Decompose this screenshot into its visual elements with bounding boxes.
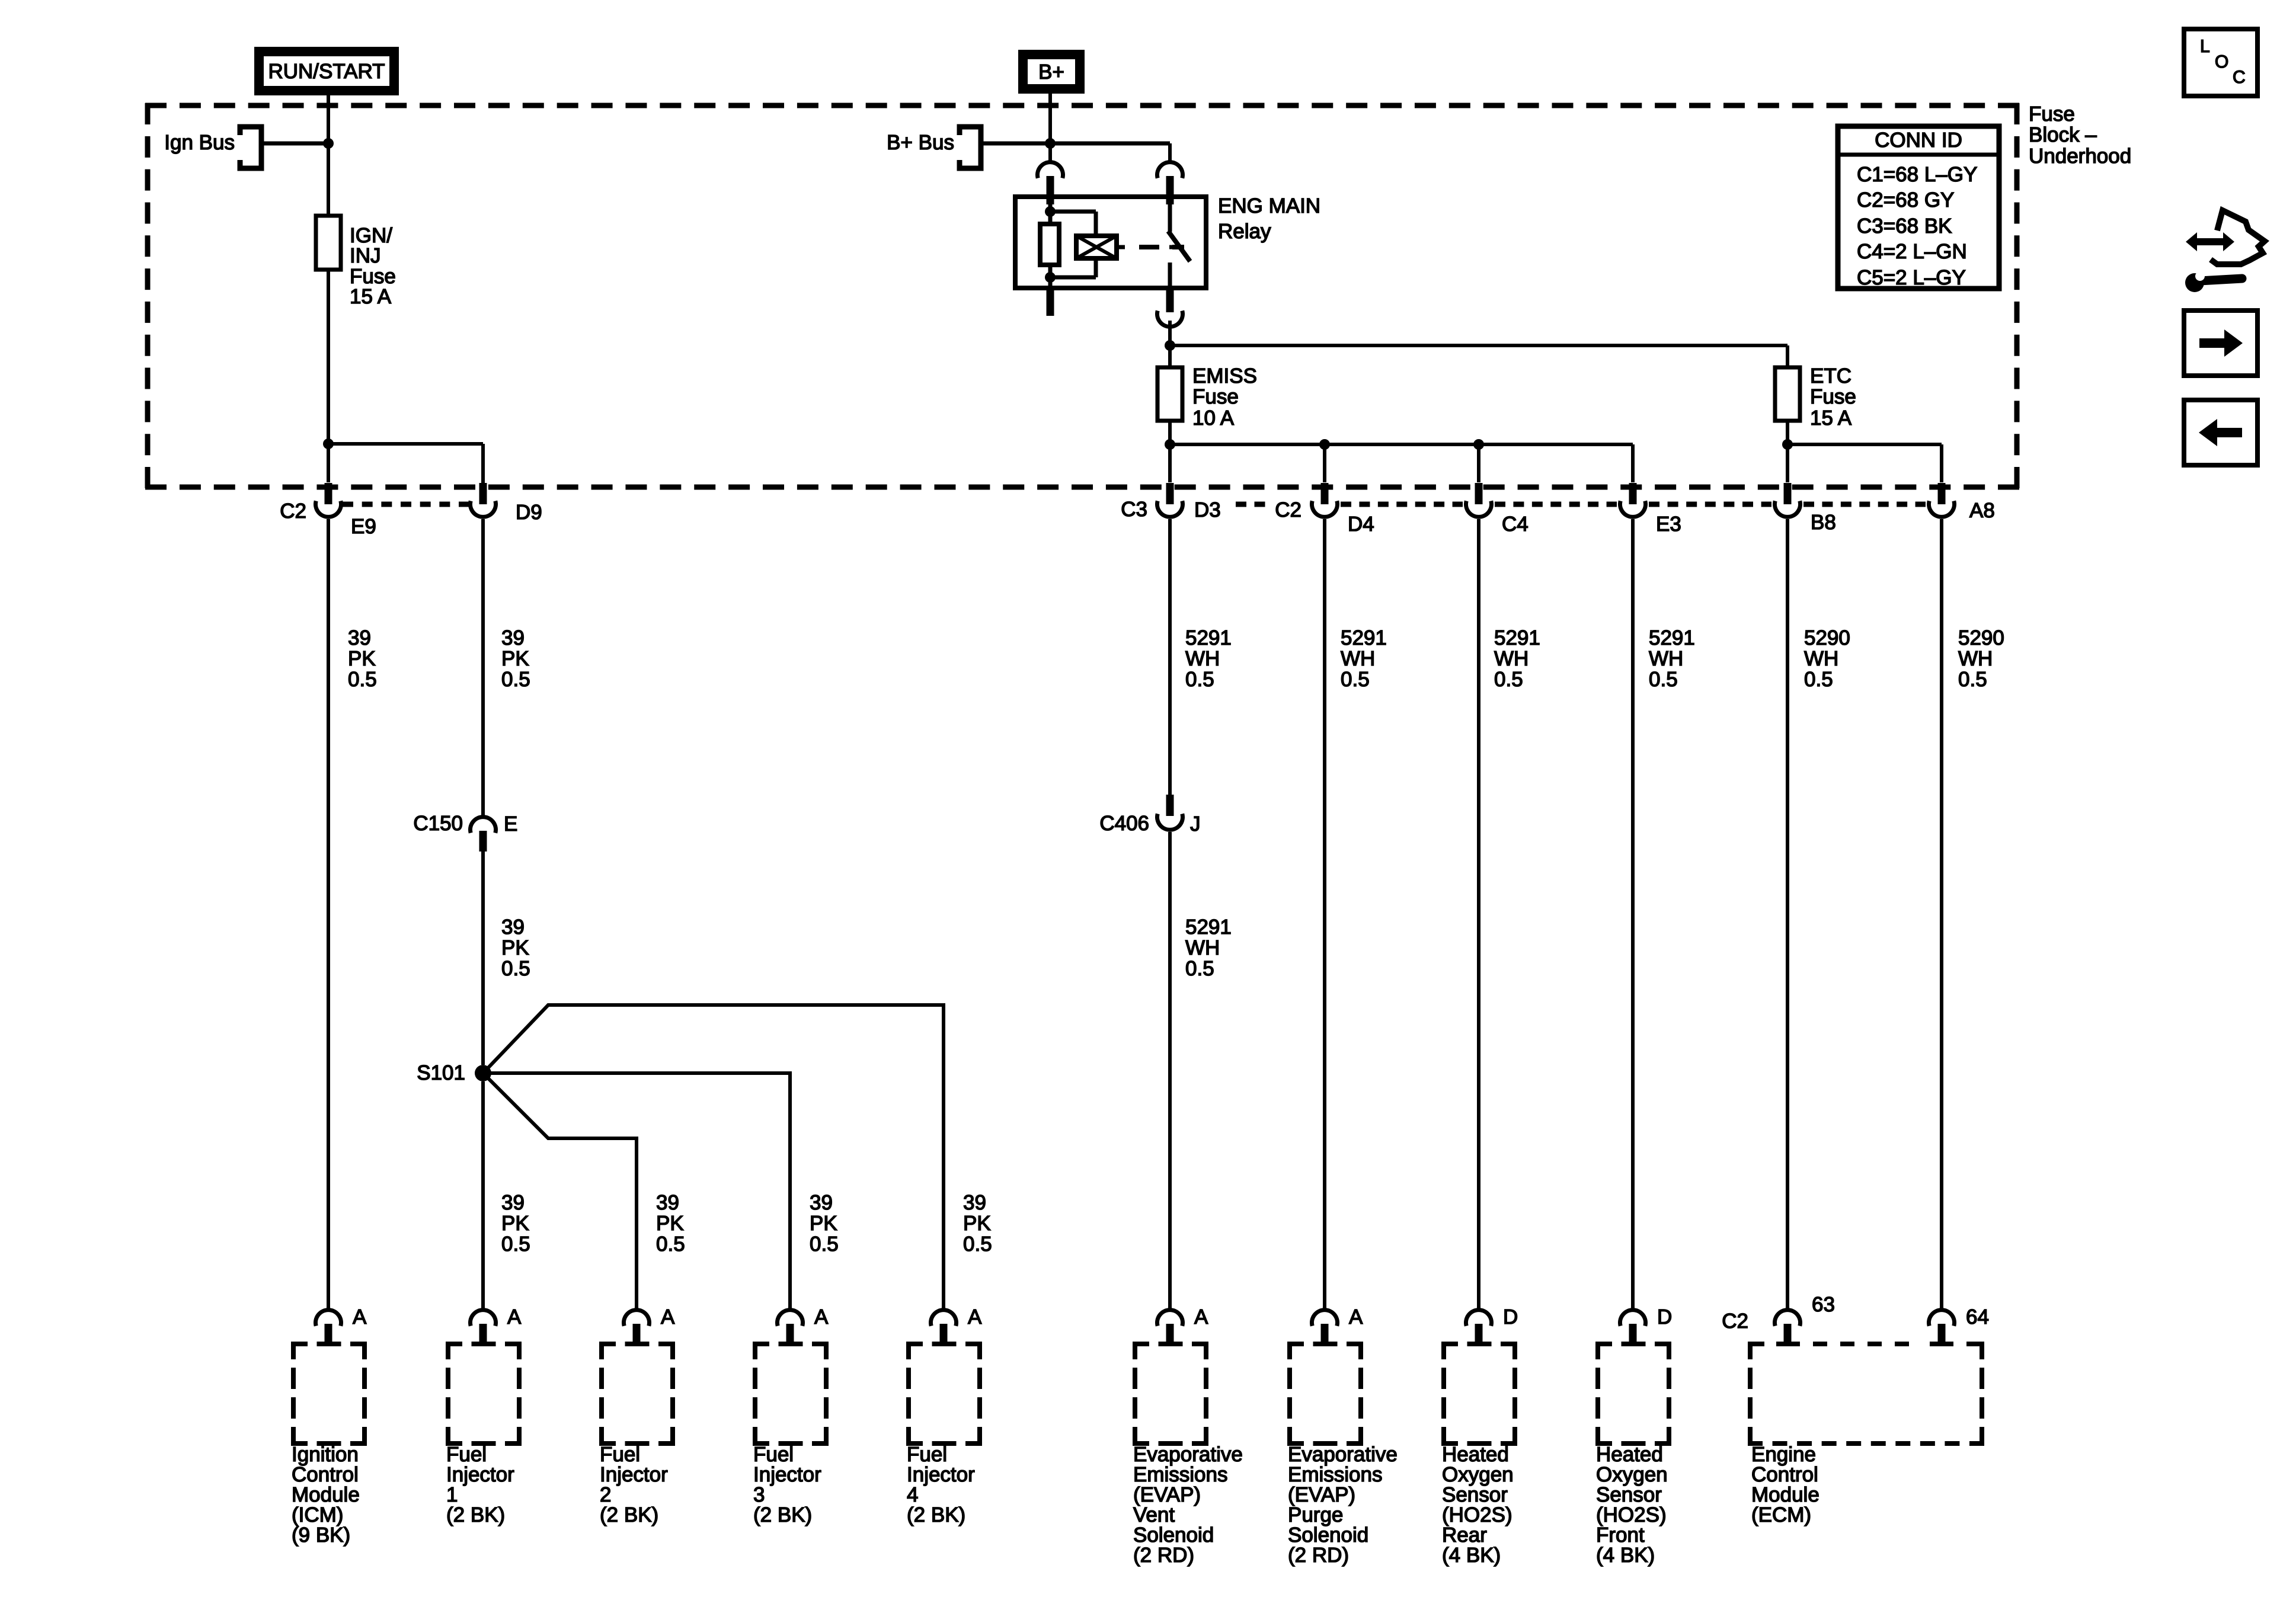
svg-text:39: 39 (501, 916, 525, 939)
svg-text:J: J (1190, 812, 1201, 836)
fuse IGN/INJ 15A (316, 216, 341, 270)
relay coil resistor (1040, 224, 1059, 265)
relay coil node top (1045, 206, 1056, 217)
svg-text:0.5: 0.5 (501, 668, 530, 691)
in-line connector C406 pin J (1166, 795, 1174, 816)
relay coil winding symbol (1050, 210, 1096, 214)
connector pin ECM pin 63 (1775, 1310, 1801, 1344)
svg-text:D: D (1657, 1305, 1672, 1329)
wire E3 to HO2S front (1631, 519, 1635, 1308)
svg-text:C150: C150 (413, 812, 463, 835)
svg-text:(2 BK): (2 BK) (753, 1503, 812, 1526)
svg-text:0.5: 0.5 (1185, 668, 1214, 691)
wire D3 to C406 (1168, 519, 1172, 796)
junction bus to D4 (1319, 439, 1330, 450)
svg-text:C5=2 L–GY: C5=2 L–GY (1857, 266, 1966, 289)
svg-text:B8: B8 (1811, 511, 1836, 534)
wire B+ Bus to relay (981, 142, 1170, 146)
svg-text:(4 BK): (4 BK) (1596, 1544, 1655, 1567)
svg-text:PK: PK (963, 1212, 991, 1235)
junction Ign Bus / RUN-START wire (323, 138, 334, 149)
connector pin A8 (1929, 483, 1955, 517)
svg-text:0.5: 0.5 (656, 1233, 685, 1256)
connector pin ICM pin A (316, 1310, 341, 1344)
component box fuel injector 3 (753, 1342, 829, 1446)
svg-text:A8: A8 (1969, 499, 1995, 522)
connector pin EVAP vent solenoid pin A (1157, 1310, 1183, 1344)
svg-text:0.5: 0.5 (1649, 668, 1678, 691)
svg-text:39: 39 (501, 626, 525, 649)
svg-text:5290: 5290 (1804, 626, 1850, 649)
wire E9 to ICM pin A (327, 519, 330, 1308)
icon LOC box (2184, 29, 2257, 96)
svg-text:0.5: 0.5 (501, 1233, 530, 1256)
relay actuator dashed link (1139, 245, 1184, 249)
svg-text:0.5: 0.5 (963, 1233, 992, 1256)
svg-text:Block –: Block – (2029, 123, 2097, 146)
wire S101 branch to injector 4 (483, 1005, 944, 1308)
component box fuel injector 2 (599, 1342, 675, 1446)
connector boundary dashed line C4-E3 (1495, 502, 1617, 507)
B+ Bus bracket (960, 127, 981, 168)
connector pin ECM pin 64 (1929, 1310, 1955, 1344)
svg-text:Fuse: Fuse (1192, 385, 1239, 408)
relay ENG MAIN (1015, 162, 1206, 327)
wire EMISS fuse to bus (1168, 421, 1172, 444)
svg-text:0.5: 0.5 (1958, 668, 1987, 691)
wire down to EMISS fuse (1168, 345, 1172, 367)
junction relay output to ETC feed (1165, 340, 1175, 351)
wire branch down to D9 (481, 444, 485, 484)
svg-text:C: C (2233, 68, 2246, 87)
svg-text:Fuse: Fuse (1810, 385, 1856, 408)
svg-text:A: A (507, 1305, 522, 1329)
wire to A8 (1940, 444, 1943, 482)
svg-text:S101: S101 (417, 1061, 465, 1084)
svg-text:ENG MAIN: ENG MAIN (1218, 194, 1320, 217)
svg-text:(9 BK): (9 BK) (292, 1523, 350, 1547)
svg-text:39: 39 (348, 626, 371, 649)
svg-text:A: A (1194, 1305, 1208, 1329)
power feed box B+ (1023, 55, 1080, 89)
icon vehicle with wrench (2185, 210, 2265, 292)
icon arrow previous page (2184, 400, 2257, 465)
svg-text:PK: PK (501, 936, 529, 959)
connector boundary dashed line D3-D4 (1236, 502, 1273, 507)
wire D4 to EVAP purge solenoid (1323, 519, 1326, 1308)
relay coil actuator stub (1117, 245, 1125, 249)
svg-text:A: A (1349, 1305, 1363, 1329)
svg-text:0.5: 0.5 (501, 957, 530, 980)
wire B+ to relay coil pin (1048, 94, 1052, 161)
svg-text:0.5: 0.5 (1494, 668, 1523, 691)
svg-text:O: O (2215, 52, 2228, 72)
CONN ID table (1838, 126, 1999, 289)
svg-text:L: L (2200, 37, 2210, 56)
svg-text:WH: WH (1958, 647, 1993, 670)
svg-text:5291: 5291 (1649, 626, 1695, 649)
relay switch output pin (1166, 288, 1174, 312)
wire RUN/START to IGN/INJ fuse (327, 95, 330, 216)
svg-text:C2=68 GY: C2=68 GY (1857, 188, 1954, 212)
svg-text:WH: WH (1804, 647, 1838, 670)
svg-text:(4 BK): (4 BK) (1442, 1544, 1501, 1567)
svg-text:E3: E3 (1656, 513, 1681, 536)
wire to C4 (1477, 444, 1480, 482)
svg-text:RUN/START: RUN/START (268, 60, 385, 83)
junction S splice to D9 branch (323, 438, 334, 449)
component box fuel injector 1 (446, 1342, 522, 1446)
svg-text:D3: D3 (1194, 498, 1221, 521)
wire down to ETC fuse (1786, 345, 1789, 367)
svg-text:39: 39 (963, 1191, 986, 1214)
wire D9 to C150 (481, 519, 485, 816)
component box HO2S rear (1441, 1342, 1517, 1446)
wire ETC fuse to bus (1786, 421, 1789, 444)
svg-text:63: 63 (1812, 1293, 1835, 1316)
connector pin D3 (1157, 483, 1182, 517)
svg-text:PK: PK (656, 1212, 684, 1235)
wire to B8 (1786, 444, 1789, 482)
svg-text:5291: 5291 (1185, 916, 1232, 939)
svg-text:0.5: 0.5 (810, 1233, 839, 1256)
svg-text:E: E (504, 812, 517, 836)
connector pin fuel injector 3 pin A (778, 1310, 803, 1344)
wire S101 to injector 1 (481, 1081, 485, 1308)
svg-text:39: 39 (501, 1191, 525, 1214)
svg-text:D: D (1503, 1305, 1518, 1329)
component box HO2S front (1595, 1342, 1671, 1446)
relay coil ground stub pin (1047, 288, 1054, 316)
connector pin E9 (316, 483, 341, 517)
svg-text:5291: 5291 (1494, 626, 1540, 649)
svg-text:WH: WH (1185, 647, 1220, 670)
svg-text:15 A: 15 A (1810, 406, 1852, 430)
svg-text:CONN ID: CONN ID (1875, 129, 1962, 152)
in-line connector C150 pin E (470, 817, 495, 833)
wire B+ bus to relay switch pin (1168, 143, 1172, 161)
connector pin EVAP purge solenoid pin A (1312, 1310, 1338, 1344)
svg-text:C2: C2 (1275, 498, 1302, 521)
svg-text:15 A: 15 A (350, 285, 392, 308)
component box fuel injector 4 (906, 1342, 982, 1446)
wire S101 branch to injector 3 (483, 1073, 790, 1308)
svg-text:39: 39 (810, 1191, 833, 1214)
wire C4 to HO2S rear (1477, 519, 1480, 1308)
svg-text:Underhood: Underhood (2029, 145, 2131, 168)
svg-text:WH: WH (1185, 936, 1220, 959)
svg-text:Fuse: Fuse (2029, 103, 2075, 126)
svg-text:5291: 5291 (1341, 626, 1387, 649)
connector pin HO2S rear pin D (1466, 1310, 1492, 1344)
svg-text:WH: WH (1649, 647, 1683, 670)
svg-text:39: 39 (656, 1191, 679, 1214)
wire C150 to S101 (481, 852, 485, 1065)
connector pin B8 (1775, 483, 1801, 517)
splice S101 (475, 1065, 491, 1081)
connector pin C4 (1466, 483, 1492, 517)
component box EVAP vent solenoid (1133, 1342, 1208, 1446)
svg-text:PK: PK (810, 1212, 837, 1235)
Fuse Block - Underhood dashed boundary box (145, 103, 2019, 488)
connector pin fuel injector 2 pin A (624, 1310, 650, 1344)
component box ICM (291, 1342, 367, 1446)
wire ETC distribution bus (1787, 443, 1942, 446)
svg-text:5291: 5291 (1185, 626, 1232, 649)
wire to E3 (1631, 444, 1635, 482)
component box EVAP purge solenoid (1287, 1342, 1363, 1446)
svg-text:0.5: 0.5 (1804, 668, 1833, 691)
icon arrow next page (2184, 311, 2257, 376)
component box ECM (1748, 1342, 1984, 1446)
svg-text:0.5: 0.5 (1341, 668, 1370, 691)
svg-text:C2: C2 (1722, 1310, 1748, 1333)
svg-text:64: 64 (1966, 1305, 1989, 1329)
svg-text:(ECM): (ECM) (1751, 1503, 1811, 1526)
svg-text:(2 RD): (2 RD) (1133, 1544, 1194, 1567)
svg-text:10 A: 10 A (1192, 406, 1235, 430)
svg-text:C2: C2 (280, 500, 306, 523)
svg-text:(2 RD): (2 RD) (1288, 1544, 1349, 1567)
svg-text:Ign Bus: Ign Bus (164, 131, 235, 154)
svg-text:C3: C3 (1121, 498, 1147, 521)
connector pin D9 (470, 483, 495, 517)
svg-text:C1=68 L–GY: C1=68 L–GY (1857, 163, 1977, 186)
svg-text:(2 BK): (2 BK) (600, 1503, 658, 1526)
power feed box RUN/START (259, 52, 394, 91)
connector pin fuel injector 1 pin A (470, 1310, 495, 1344)
relay coil node bottom (1045, 272, 1056, 283)
svg-text:A: A (814, 1305, 829, 1329)
svg-text:0.5: 0.5 (1185, 957, 1214, 980)
svg-text:D4: D4 (1348, 513, 1374, 536)
junction bus to C4 (1473, 439, 1484, 450)
wire to D4 (1323, 444, 1326, 482)
svg-text:ETC: ETC (1810, 364, 1851, 388)
svg-text:C406: C406 (1099, 812, 1149, 835)
fuse ETC 15A (1775, 367, 1800, 421)
connector pin D4 (1312, 483, 1337, 517)
svg-text:Relay: Relay (1218, 220, 1271, 243)
svg-text:PK: PK (348, 647, 376, 670)
connector boundary dashed line D4-C4 (1341, 502, 1463, 507)
connector boundary dashed line E3-B8 (1649, 502, 1771, 507)
svg-text:A: A (661, 1305, 675, 1329)
svg-text:A: A (353, 1305, 367, 1329)
connector boundary dashed line E9-D9 (343, 502, 469, 507)
svg-text:B+ Bus: B+ Bus (887, 131, 954, 154)
wire relay output (1168, 321, 1172, 345)
wire B8 to ECM 63 (1786, 519, 1789, 1308)
wire EMISS distribution bus (1170, 443, 1633, 446)
svg-text:PK: PK (501, 1212, 529, 1235)
connector boundary dashed line B8-A8 (1803, 502, 1926, 507)
Ign Bus bracket (240, 127, 261, 168)
svg-text:(2 BK): (2 BK) (446, 1503, 505, 1526)
svg-text:C4=2 L–GN: C4=2 L–GN (1857, 240, 1967, 263)
wire IGN/INJ fuse to E9 (327, 270, 330, 482)
connector pin E3 (1620, 483, 1646, 517)
wire S101 branch to injector 2 (483, 1073, 637, 1308)
fuse EMISS 10A (1157, 367, 1182, 421)
svg-text:INJ: INJ (350, 244, 381, 267)
svg-text:WH: WH (1341, 647, 1375, 670)
svg-text:D9: D9 (516, 501, 542, 524)
junction B+ wire / B+ Bus (1045, 138, 1056, 149)
connector pin HO2S front pin D (1620, 1310, 1646, 1344)
wire C406 to EVAP vent solenoid (1168, 832, 1172, 1308)
svg-text:PK: PK (501, 647, 529, 670)
svg-text:0.5: 0.5 (348, 668, 377, 691)
wire feed to ETC fuse (1170, 344, 1787, 347)
junction ETC bus at B8 (1782, 439, 1793, 450)
svg-text:C3=68 BK: C3=68 BK (1857, 215, 1952, 238)
wire branch to D9 (328, 442, 483, 446)
relay switch (1168, 197, 1172, 232)
junction EMISS bus at D3 (1165, 439, 1175, 450)
svg-text:A: A (968, 1305, 982, 1329)
connector pin fuel injector 4 pin A (930, 1310, 956, 1344)
svg-text:C4: C4 (1502, 513, 1528, 536)
svg-text:(2 BK): (2 BK) (907, 1503, 965, 1526)
svg-text:EMISS: EMISS (1192, 364, 1257, 388)
svg-text:WH: WH (1494, 647, 1528, 670)
wire A8 to ECM 64 (1940, 519, 1943, 1308)
svg-text:5290: 5290 (1958, 626, 2004, 649)
svg-text:E9: E9 (351, 515, 376, 538)
wire Ign Bus to RUN/START feed (261, 142, 328, 146)
wire to D3 (1168, 444, 1172, 482)
svg-text:B+: B+ (1038, 60, 1064, 84)
